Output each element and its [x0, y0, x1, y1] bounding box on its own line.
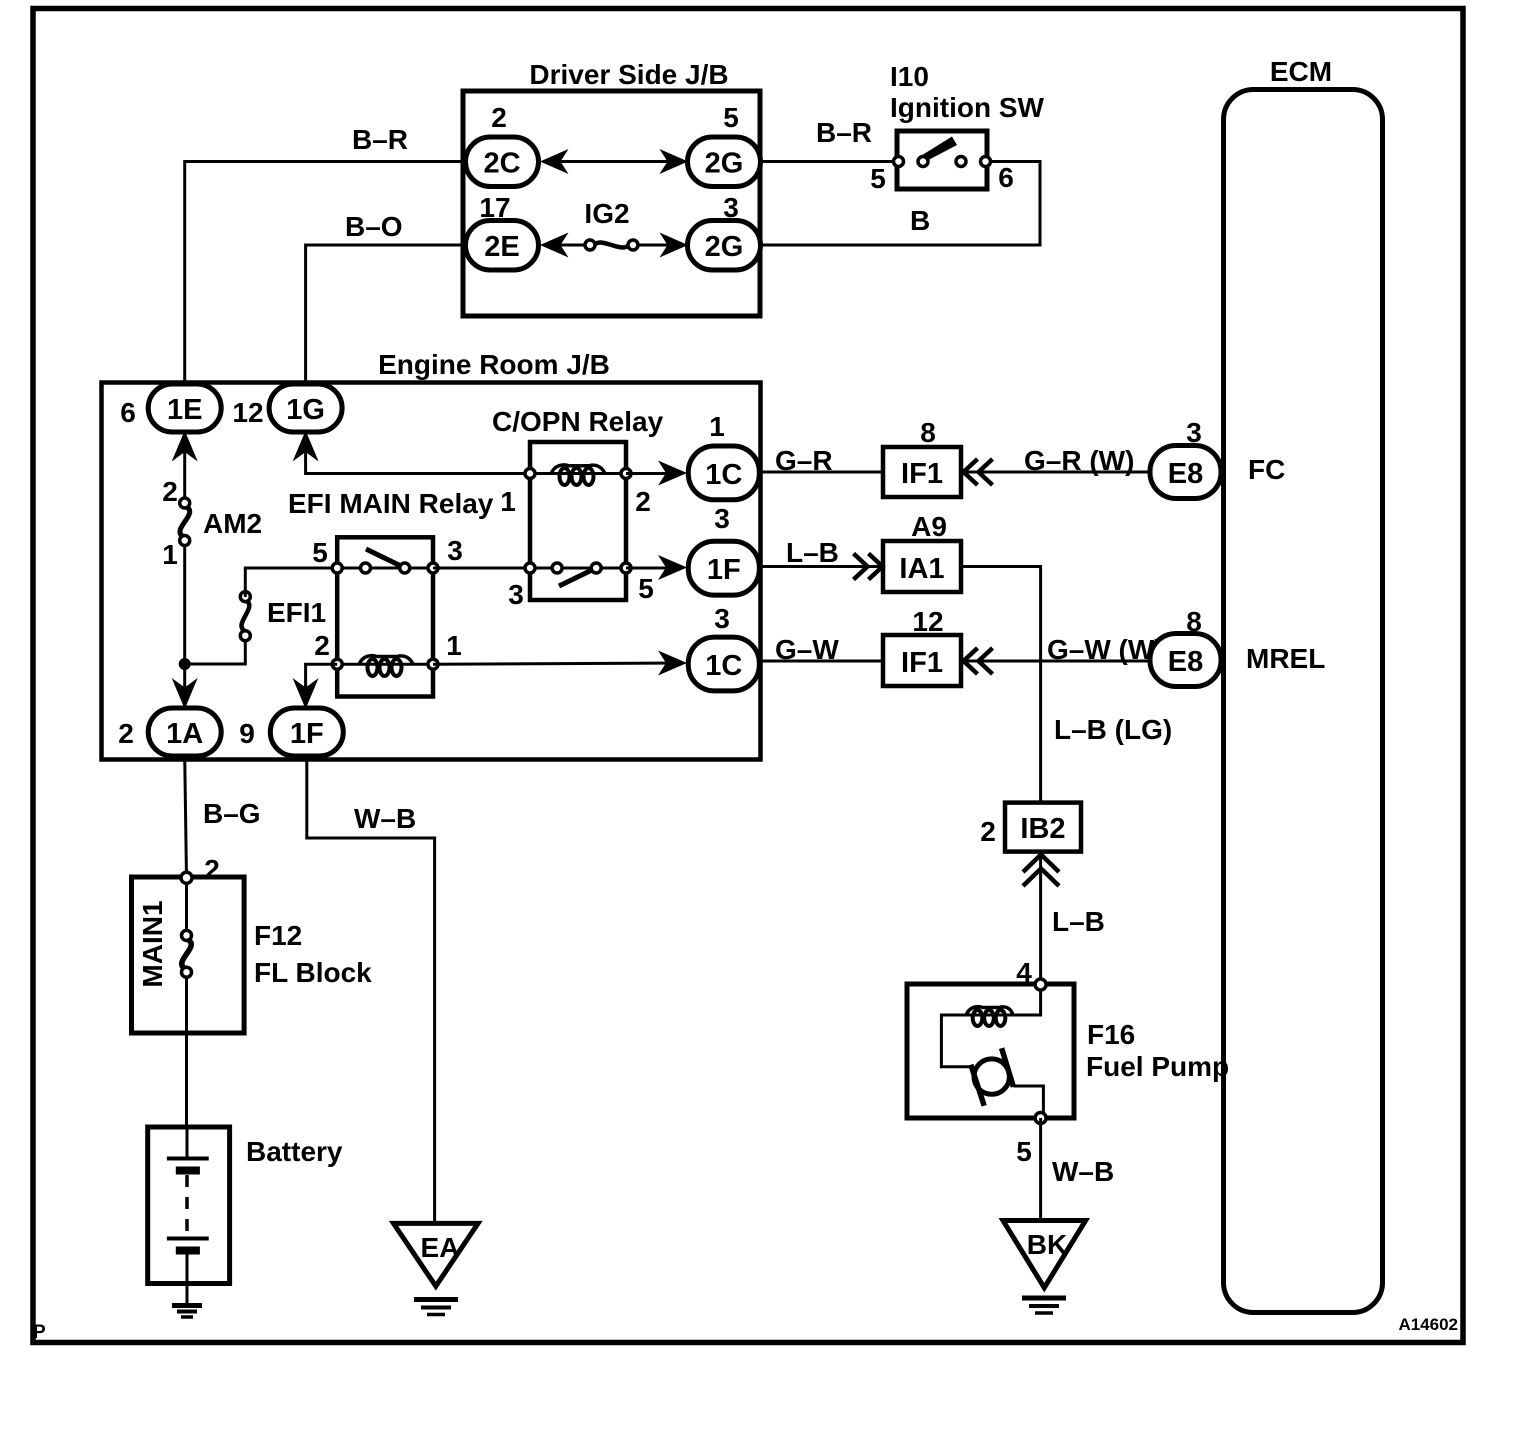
svg-text:ECM: ECM — [1270, 56, 1332, 87]
fuse IG2 — [594, 243, 629, 248]
svg-text:1C: 1C — [705, 459, 742, 491]
wire G-R 1C to IF1 — [759, 471, 883, 474]
connector 1A — [148, 708, 221, 756]
fuel pump motor — [974, 1059, 1009, 1094]
connector IA1 — [883, 541, 961, 592]
EFI MAIN relay switch blade — [366, 549, 403, 567]
arrow down into 1F lower — [293, 678, 319, 709]
svg-text:G–R (W): G–R (W) — [1024, 445, 1134, 476]
Driver Side J/B block — [463, 91, 760, 316]
wire junction to EFI1 — [185, 636, 246, 664]
svg-text:6: 6 — [120, 397, 136, 428]
EFI MAIN relay switch contacts — [332, 563, 342, 573]
svg-text:6: 6 — [998, 162, 1014, 193]
wire 1G to C/OPN coil pin 1 — [306, 432, 532, 474]
connector 1F lower — [270, 708, 343, 756]
fuel pump internal wire to coil — [941, 985, 1040, 1067]
wire 2C to 2G inside J/B — [548, 160, 680, 163]
chevron arrows into IA1 — [854, 554, 868, 580]
arrow into 1C lower — [658, 651, 687, 676]
wire F12 to battery — [185, 1033, 188, 1128]
fuse EFI1 — [242, 600, 250, 632]
C/OPN relay switch blade — [559, 569, 594, 586]
svg-text:2: 2 — [204, 854, 220, 885]
ground EA hatching — [414, 1297, 458, 1302]
svg-text:2: 2 — [314, 630, 330, 661]
fuel pump F16 box — [907, 984, 1074, 1118]
svg-text:Ignition SW: Ignition SW — [890, 92, 1045, 123]
fuel pump pin 4 — [1035, 979, 1046, 990]
EFI MAIN relay switch wire — [337, 567, 433, 570]
svg-text:IA1: IA1 — [899, 553, 944, 585]
svg-text:3: 3 — [714, 603, 730, 634]
fusible link block F12 — [132, 877, 245, 1033]
svg-text:3: 3 — [508, 579, 524, 610]
svg-text:B: B — [910, 205, 930, 236]
connector 1F mid — [688, 541, 759, 595]
ground battery hatching — [172, 1303, 202, 1308]
C/OPN relay switch wire — [530, 567, 626, 570]
wire EFI1 to relay pin 5 — [245, 568, 337, 597]
battery plate 2 thick — [176, 1247, 200, 1255]
battery plate 1 thick — [176, 1167, 200, 1175]
wire B-G 1A to F12 — [185, 756, 187, 878]
wire B from ignition switch pin 6 to lower 2G — [757, 162, 1040, 246]
wire W-B 1F to EA ground — [307, 756, 435, 1223]
svg-text:2: 2 — [635, 486, 651, 517]
svg-text:2G: 2G — [705, 231, 744, 263]
C/OPN relay switch contacts — [525, 563, 535, 573]
svg-text:W–B: W–B — [1052, 1156, 1114, 1187]
motor brush left — [971, 1065, 984, 1106]
wire 1E to AM2 to junction — [183, 432, 186, 503]
svg-text:3: 3 — [714, 503, 730, 534]
ground BK hatching — [1022, 1296, 1066, 1301]
wire EFI MAIN coil pin2 to 1F — [306, 664, 338, 709]
connector 1E — [148, 384, 221, 432]
svg-text:EFI MAIN Relay: EFI MAIN Relay — [288, 488, 494, 519]
connector 2E — [466, 221, 539, 271]
svg-text:1F: 1F — [290, 718, 324, 750]
svg-text:EA: EA — [421, 1232, 460, 1263]
svg-text:Fuel Pump: Fuel Pump — [1086, 1051, 1229, 1082]
svg-text:MAIN1: MAIN1 — [137, 900, 168, 987]
svg-text:IF1: IF1 — [901, 458, 943, 490]
svg-text:L–B: L–B — [786, 537, 839, 568]
svg-text:B–O: B–O — [345, 211, 403, 242]
fuel pump pin 5 — [1035, 1113, 1046, 1124]
svg-text:IG2: IG2 — [584, 198, 629, 229]
C/OPN relay coil wire — [530, 472, 626, 475]
svg-text:E8: E8 — [1168, 458, 1203, 490]
switch lever I10 — [922, 137, 958, 162]
C/OPN relay coil — [551, 465, 605, 474]
connector 1C lower — [688, 637, 759, 691]
svg-text:G–R: G–R — [775, 445, 833, 476]
EFI MAIN relay coil — [359, 656, 413, 665]
svg-text:5: 5 — [723, 102, 739, 133]
svg-text:G–W (W): G–W (W) — [1047, 634, 1164, 665]
battery plate 1 long — [167, 1157, 209, 1161]
svg-text:2G: 2G — [705, 148, 744, 180]
svg-text:A9: A9 — [911, 511, 947, 542]
svg-text:F16: F16 — [1087, 1019, 1135, 1050]
arrow into 1F mid — [658, 555, 687, 580]
svg-text:F12: F12 — [254, 920, 302, 951]
svg-text:IB2: IB2 — [1020, 813, 1065, 845]
EFI MAIN relay box — [337, 537, 433, 696]
wire fuel pump to BK ground — [1039, 1118, 1042, 1221]
ignition switch I10 — [897, 131, 987, 189]
fuel pump coil — [966, 1007, 1013, 1015]
svg-text:1C: 1C — [705, 650, 742, 682]
battery internal wire — [186, 1128, 189, 1157]
svg-text:AM2: AM2 — [203, 508, 262, 539]
battery dashed center — [185, 1175, 189, 1237]
svg-text:12: 12 — [232, 397, 263, 428]
svg-text:IF1: IF1 — [901, 647, 943, 679]
svg-text:2C: 2C — [483, 148, 520, 180]
arrow into 2E — [540, 233, 569, 258]
svg-text:1E: 1E — [167, 394, 202, 426]
svg-text:EFI1: EFI1 — [267, 597, 326, 628]
svg-text:BK: BK — [1027, 1229, 1067, 1260]
arrow into lower 2G — [660, 233, 689, 258]
wire G-W 1C to IF1 lower — [759, 660, 883, 663]
chevron arrows into IF1 lower — [964, 648, 978, 674]
connector IF1 lower — [883, 635, 961, 686]
svg-text:W–B: W–B — [354, 803, 416, 834]
connector 2G lower — [688, 221, 761, 271]
arrow into 2C — [540, 149, 569, 174]
connector 2C — [466, 137, 539, 187]
connector E8 lower — [1150, 634, 1221, 687]
connector 1G — [269, 384, 342, 432]
wire L-B 1F to IA1 — [759, 565, 883, 568]
svg-text:5: 5 — [870, 163, 886, 194]
svg-text:9: 9 — [239, 718, 255, 749]
svg-text:8: 8 — [920, 417, 936, 448]
wire IA1 to IB2 L-B (LG) — [961, 567, 1041, 804]
fuse MAIN1 wire — [185, 883, 188, 936]
C/OPN relay box — [530, 442, 626, 600]
svg-text:B–R: B–R — [816, 117, 872, 148]
svg-text:E8: E8 — [1168, 646, 1203, 678]
svg-text:5: 5 — [312, 537, 328, 568]
connector IB2 — [1005, 803, 1081, 852]
junction node — [179, 658, 191, 670]
svg-text:MREL: MREL — [1246, 643, 1325, 674]
chevron arrows up into IB2 — [1023, 855, 1059, 873]
wire E8 to IF1 G-R (W) — [961, 471, 1152, 474]
svg-text:Battery: Battery — [246, 1136, 343, 1167]
svg-text:12: 12 — [912, 606, 943, 637]
ground EA triangle — [394, 1223, 479, 1286]
wire B-R from 2C to 1E — [185, 162, 466, 387]
svg-text:1: 1 — [500, 486, 516, 517]
svg-text:3: 3 — [447, 535, 463, 566]
svg-text:2: 2 — [491, 102, 507, 133]
svg-text:5: 5 — [638, 573, 654, 604]
switch contacts I10 — [894, 157, 904, 167]
svg-text:2E: 2E — [484, 231, 519, 263]
svg-text:B–R: B–R — [352, 124, 408, 155]
svg-text:1: 1 — [446, 630, 462, 661]
wire C/OPN coil pin2 to 1C — [626, 472, 682, 475]
svg-text:1G: 1G — [286, 394, 325, 426]
svg-text:L–B (LG): L–B (LG) — [1054, 714, 1172, 745]
wire 2G to ignition switch pin 5 — [757, 160, 899, 163]
arrow up into 1E — [172, 431, 198, 462]
battery plate 2 long — [167, 1237, 209, 1241]
arrow into 1C upper — [658, 461, 687, 486]
arrow down into 1A — [172, 678, 198, 709]
svg-text:2: 2 — [118, 718, 134, 749]
svg-text:P: P — [33, 1322, 46, 1343]
svg-text:5: 5 — [1016, 1136, 1032, 1167]
F12 top terminal — [181, 872, 192, 883]
wire EFI MAIN coil pin1 to 1C lower — [433, 663, 682, 664]
motor brush right — [1002, 1048, 1014, 1087]
wire E8 to IF1 G-W (W) — [961, 660, 1152, 663]
svg-text:L–B: L–B — [1052, 906, 1105, 937]
svg-text:A14602: A14602 — [1398, 1315, 1458, 1334]
fuse MAIN1 squiggle — [182, 939, 192, 970]
arrow into 2G — [660, 149, 689, 174]
connector 2G upper — [688, 137, 761, 187]
wire EFI MAIN pin3 to C/OPN pin3 — [433, 567, 530, 570]
fuse IG2 wire row — [548, 244, 594, 247]
Engine Room J/B block — [102, 383, 761, 760]
svg-text:FL Block: FL Block — [254, 957, 372, 988]
wire C/OPN pin5 to 1F mid — [626, 567, 682, 570]
connector 1C upper — [688, 446, 759, 500]
svg-text:2: 2 — [162, 476, 178, 507]
svg-text:1A: 1A — [166, 718, 203, 750]
ECM U1 outline — [1224, 90, 1383, 1313]
svg-text:G–W: G–W — [775, 634, 839, 665]
wire B-O from 2E to 1G — [306, 245, 466, 386]
fuel pump internal wire to pin 5 — [1013, 1086, 1043, 1118]
EFI MAIN relay coil wire — [337, 663, 433, 666]
connector IF1 upper — [883, 447, 961, 497]
connector E8 upper — [1150, 446, 1221, 499]
svg-text:B–G: B–G — [203, 798, 261, 829]
chevron arrows into IF1 upper — [964, 459, 978, 485]
svg-text:Driver Side J/B: Driver Side J/B — [529, 59, 728, 90]
wire IB2 to fuel pump pin 4 — [1039, 852, 1042, 985]
svg-text:I10: I10 — [890, 61, 929, 92]
svg-text:1F: 1F — [707, 554, 741, 586]
svg-text:2: 2 — [980, 816, 996, 847]
svg-text:1: 1 — [162, 539, 178, 570]
wire junction to 1A — [183, 664, 186, 709]
fuse AM2 — [180, 506, 190, 538]
svg-text:Engine Room J/B: Engine Room J/B — [378, 349, 610, 380]
battery box — [148, 1127, 230, 1284]
ground BK triangle — [1003, 1221, 1086, 1288]
arrow up into 1G — [293, 431, 319, 462]
battery to ground wire — [186, 1252, 189, 1304]
svg-text:C/OPN Relay: C/OPN Relay — [492, 406, 664, 437]
svg-text:1: 1 — [709, 411, 725, 442]
svg-text:FC: FC — [1248, 454, 1285, 485]
